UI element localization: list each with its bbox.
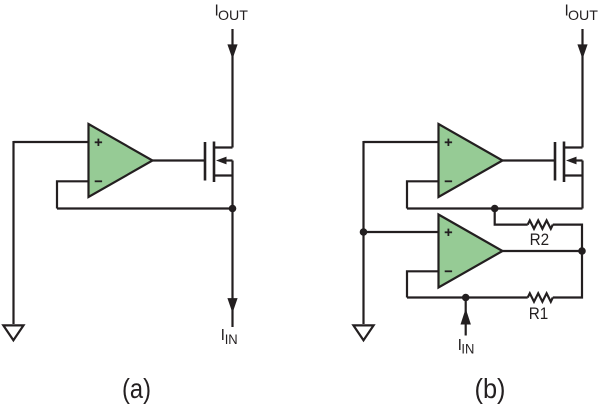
wire output A3 — [503, 250, 583, 252]
wire inverting input A1 — [57, 181, 89, 208]
wire ground rail (b) — [362, 141, 364, 324]
node output junction (b) — [578, 247, 586, 255]
wire I_IN (b) — [465, 298, 467, 336]
resistor R2 — [528, 220, 553, 228]
svg-text:R2: R2 — [530, 231, 550, 249]
wire R1 line — [407, 296, 528, 298]
arrowhead I_IN (b) — [461, 309, 471, 325]
wire noninverting input A3 — [364, 231, 439, 233]
op-amp A2 — [439, 124, 503, 197]
svg-text:IN: IN — [461, 340, 474, 356]
node feedback junction (a) — [229, 205, 237, 213]
svg-text:OUT: OUT — [218, 7, 248, 23]
transistor Q2 — [555, 142, 564, 183]
wire R1 to output node — [553, 251, 582, 298]
op-amp A3 — [439, 215, 503, 288]
resistor R1 — [528, 293, 553, 301]
svg-text:(b): (b) — [475, 373, 506, 404]
wire ground rail (a) — [12, 141, 14, 324]
label I_IN (b) — [458, 337, 475, 356]
wire I_OUT drain (a) — [231, 29, 233, 148]
minus sign A3 — [445, 270, 452, 272]
plus sign A1 — [95, 139, 102, 146]
wire noninverting input A1 — [14, 141, 89, 143]
node I_IN junction (b) — [462, 294, 470, 302]
plus sign A3 — [445, 229, 452, 236]
arrowhead I_OUT (b) — [577, 44, 587, 59]
wire inverting input A3 — [407, 271, 439, 297]
arrowhead I_OUT (a) — [227, 44, 237, 59]
svg-text:IN: IN — [225, 331, 238, 347]
node rail junction (b) — [360, 228, 368, 236]
arrowhead I_IN (a) — [227, 298, 237, 313]
svg-text:(a): (a) — [122, 373, 151, 404]
minus sign A1 — [95, 180, 102, 182]
label I_OUT (a) — [215, 2, 249, 23]
label I_IN (a) — [221, 327, 238, 347]
plus sign A2 — [445, 139, 452, 146]
wire source drop (b) — [581, 176, 583, 209]
wire feedback (a) — [57, 207, 233, 209]
wire R2 to output node — [553, 225, 582, 251]
wire I_OUT drain (b) — [581, 29, 583, 148]
minus sign A2 — [445, 180, 452, 182]
node feedback junction (b) — [491, 205, 499, 213]
wire R2 branch — [495, 209, 528, 225]
op-amp A1 — [89, 124, 153, 197]
ground (b) — [353, 325, 373, 340]
wire gate (a) — [153, 159, 205, 161]
label I_OUT (b) — [565, 2, 599, 23]
wire gate (b) — [503, 159, 555, 161]
wire source to I_IN (a) — [231, 176, 233, 328]
wire inverting input A2 — [407, 181, 439, 208]
ground (a) — [3, 325, 23, 340]
wire noninverting input A2 — [364, 141, 439, 143]
svg-text:OUT: OUT — [568, 7, 598, 23]
svg-text:R1: R1 — [529, 305, 549, 323]
transistor Q1 — [205, 142, 214, 183]
wire feedback (b) — [407, 207, 583, 209]
